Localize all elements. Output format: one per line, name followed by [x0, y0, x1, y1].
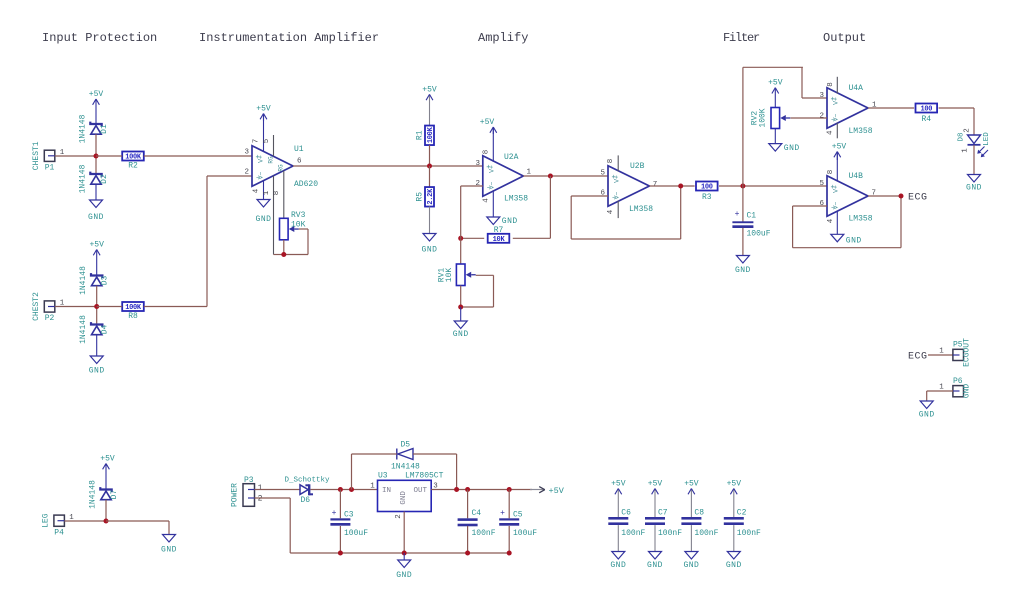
ground below D4: [96, 335, 98, 356]
wire D7 to node D: [105, 500, 107, 521]
wire P6 to ground: [927, 390, 953, 392]
svg-text:1: 1: [263, 190, 271, 195]
svg-text:C6: C6: [621, 509, 631, 518]
resistor R5 2.2K: [425, 187, 434, 207]
svg-text:8: 8: [827, 170, 835, 175]
pin 4 of U2A: [492, 190, 494, 217]
diode D7 1N4148: [100, 487, 111, 492]
svg-text:R2: R2: [128, 162, 138, 171]
regulator U3 LM7805CT: [378, 480, 432, 511]
wire R1 to node C: [429, 145, 431, 166]
resistor R2 100K: [122, 152, 144, 161]
svg-text:2: 2: [258, 494, 263, 503]
junction node B: [94, 304, 99, 309]
wire RV3 bottom to junction: [283, 240, 285, 255]
svg-text:C8: C8: [694, 509, 704, 518]
wire inverting node to U2A pin 2: [460, 186, 462, 238]
pin 4 stub of U2B: [617, 201, 619, 218]
wire P4 to node D: [64, 520, 106, 522]
junction rail C4: [465, 551, 470, 556]
svg-text:V−: V−: [488, 182, 495, 190]
op-amp U4B LM358: [827, 176, 868, 217]
potentiometer RV2 100K: [771, 108, 780, 129]
power +5V arrow right: [530, 489, 545, 491]
svg-text:GND: GND: [89, 367, 105, 376]
wire RV2 wiper to U4A pin 2: [791, 117, 828, 119]
svg-text:RV3: RV3: [291, 211, 306, 220]
capacitor C1 100uF: [742, 186, 744, 222]
svg-text:100nF: 100nF: [621, 529, 645, 538]
svg-text:4: 4: [482, 198, 490, 203]
wire inverting node to RV1: [460, 238, 462, 264]
svg-text:+5V: +5V: [100, 455, 115, 464]
connector P6 GND: [953, 386, 964, 397]
wire node B to D4: [96, 307, 98, 325]
svg-text:+5V: +5V: [89, 241, 104, 250]
junction rail C3: [338, 551, 343, 556]
svg-text:5: 5: [263, 138, 271, 143]
power +5V above C2: [733, 489, 735, 518]
svg-text:2.2K: 2.2K: [427, 188, 435, 205]
wire D5 left branch: [351, 454, 353, 490]
svg-text:4: 4: [827, 130, 835, 135]
svg-text:10K: 10K: [445, 268, 454, 283]
svg-text:3: 3: [244, 149, 249, 157]
wire U2B output: [649, 185, 694, 187]
svg-text:+5V: +5V: [89, 90, 104, 99]
wire P1 to node A: [55, 155, 96, 157]
svg-text:ECG: ECG: [908, 193, 928, 204]
svg-text:100K: 100K: [125, 304, 142, 312]
ground below U3: [403, 553, 405, 560]
connector P2 CHEST2: [44, 301, 55, 312]
svg-text:1N4148: 1N4148: [79, 164, 88, 193]
power +5V above U4B: [836, 152, 838, 161]
junction filter node: [740, 184, 745, 189]
wire R3 to filter node: [719, 185, 827, 187]
svg-text:GND: GND: [161, 546, 177, 555]
ground below C7: [654, 525, 656, 551]
svg-text:P4: P4: [54, 528, 64, 537]
svg-text:100uF: 100uF: [513, 529, 537, 538]
svg-text:1: 1: [939, 384, 944, 392]
svg-text:2: 2: [819, 113, 824, 121]
wire C3 to bottom rail: [339, 526, 341, 553]
svg-text:C1: C1: [747, 212, 757, 221]
svg-text:V+: V+: [833, 97, 840, 105]
svg-text:Input Protection: Input Protection: [42, 31, 157, 45]
power +5V above RV2: [774, 88, 776, 108]
wire R7 to inverting node: [461, 237, 485, 239]
wire node B to R8: [97, 306, 123, 308]
wire feedback down to R7: [549, 176, 551, 238]
ground below C1: [742, 228, 744, 256]
wire U2B feedback: [571, 195, 608, 197]
power +5V above D7: [105, 464, 107, 490]
svg-text:V+: V+: [614, 175, 621, 183]
wire ECG to P5: [928, 354, 953, 356]
svg-text:+5V: +5V: [611, 480, 626, 489]
svg-text:R7: R7: [494, 226, 504, 235]
svg-text:D7: D7: [110, 490, 119, 500]
junction OUT node: [454, 487, 459, 492]
pin 4 of U4B: [836, 211, 838, 235]
svg-text:7: 7: [653, 181, 658, 189]
capacitor C7 100nF: [645, 517, 665, 520]
svg-text:10K: 10K: [493, 236, 506, 244]
svg-text:D6: D6: [301, 496, 311, 505]
svg-text:GND: GND: [784, 144, 800, 153]
capacitor C2 100nF: [724, 517, 744, 520]
ground below U2A: [492, 216, 494, 218]
junction ECG node: [899, 194, 904, 199]
wire D6 to U3 IN: [310, 489, 377, 491]
svg-text:U4A: U4A: [849, 84, 864, 93]
power +5V above U2A: [492, 127, 494, 134]
pin 8 stub of U4A: [836, 77, 838, 94]
svg-text:V−: V−: [614, 192, 621, 200]
svg-text:GND: GND: [726, 561, 742, 570]
junction D5 left node: [349, 487, 354, 492]
svg-text:GND: GND: [735, 266, 751, 275]
svg-text:5: 5: [600, 170, 605, 178]
svg-text:100uF: 100uF: [747, 230, 771, 239]
svg-text:U3: U3: [378, 472, 388, 481]
ground right of LEG: [168, 534, 170, 536]
svg-text:LM358: LM358: [629, 205, 653, 214]
power +5V above C7: [654, 489, 656, 518]
power +5V above C6: [617, 489, 619, 518]
pin 8 of U2A: [492, 127, 494, 162]
ground below D8: [973, 145, 975, 175]
ground below C6: [617, 525, 619, 551]
wire RV1 wiper loop: [476, 274, 494, 276]
svg-text:Output: Output: [823, 31, 866, 45]
svg-text:1: 1: [370, 483, 375, 491]
svg-text:GND: GND: [610, 561, 626, 570]
ground below C2: [733, 525, 735, 551]
wire U3 OUT to +5V: [431, 489, 532, 491]
svg-text:100nF: 100nF: [694, 529, 718, 538]
wire RV1 bottom: [460, 286, 462, 308]
wire RV3 wiper loop: [299, 228, 308, 230]
svg-text:R5: R5: [416, 192, 425, 202]
potentiometer RV3 10K: [280, 218, 289, 240]
svg-text:+5V: +5V: [684, 480, 699, 489]
wire U1 output to U2A: [293, 165, 483, 167]
svg-text:P3: P3: [244, 476, 254, 485]
junction inverting node: [458, 236, 463, 241]
svg-text:+5V: +5V: [480, 118, 495, 127]
svg-text:100K: 100K: [125, 154, 142, 162]
resistor R1 100K: [425, 126, 434, 146]
svg-text:D3: D3: [101, 276, 110, 286]
ground below R5: [429, 207, 431, 234]
svg-text:ECG: ECG: [908, 352, 928, 363]
svg-text:C4: C4: [472, 509, 482, 518]
resistor R3 100: [696, 182, 718, 191]
svg-text:R8: R8: [128, 312, 138, 321]
wire R4 to LED: [939, 107, 974, 109]
svg-text:100: 100: [920, 106, 932, 114]
svg-text:GND: GND: [453, 330, 469, 339]
wire U4B output: [868, 195, 901, 197]
junction C3 node: [338, 487, 343, 492]
svg-text:6: 6: [297, 158, 302, 166]
svg-text:4: 4: [253, 188, 261, 193]
svg-text:1N4148: 1N4148: [79, 315, 88, 344]
svg-text:OUT: OUT: [413, 487, 427, 495]
svg-text:LED: LED: [983, 132, 991, 146]
svg-text:GND: GND: [256, 215, 272, 224]
svg-text:AD620: AD620: [294, 180, 318, 189]
svg-text:Amplify: Amplify: [478, 31, 528, 45]
pin 4 of U1: [263, 181, 265, 200]
svg-text:Instrumentation Amplifier: Instrumentation Amplifier: [199, 31, 379, 45]
svg-text:D1: D1: [100, 124, 109, 134]
svg-text:8: 8: [482, 150, 490, 155]
svg-text:LM358: LM358: [849, 215, 873, 224]
svg-text:RG: RG: [278, 164, 285, 172]
junction node D: [104, 519, 109, 524]
power +5V above D3: [96, 250, 98, 276]
op-amp U1 AD620: [252, 146, 293, 187]
pin 8 stub of U2B: [617, 155, 619, 171]
pin 4 stub of U4A: [836, 123, 838, 139]
junction C4 node: [465, 487, 470, 492]
wire node A to R2: [96, 155, 122, 157]
svg-text:IN: IN: [382, 487, 391, 495]
svg-text:1N4148: 1N4148: [89, 480, 98, 509]
resistor R4 100: [916, 104, 938, 113]
diode D6 D_Schottky: [300, 485, 308, 495]
junction rail U3: [402, 551, 407, 556]
svg-text:1N4148: 1N4148: [79, 114, 88, 143]
wire C5 to bottom rail: [508, 526, 510, 553]
ground below P6: [926, 400, 928, 402]
wire node C to R5: [429, 166, 431, 187]
svg-text:R4: R4: [921, 115, 931, 124]
svg-text:2: 2: [964, 128, 972, 133]
svg-text:6: 6: [819, 200, 824, 208]
svg-text:CHEST1: CHEST1: [32, 141, 41, 170]
svg-text:V−: V−: [833, 202, 840, 210]
junction RV3 node: [281, 252, 286, 257]
svg-text:ECGOUT: ECGOUT: [963, 338, 972, 367]
svg-text:GND: GND: [683, 561, 699, 570]
svg-text:C5: C5: [513, 511, 523, 520]
svg-text:P5: P5: [953, 341, 963, 350]
ground below D2: [95, 184, 97, 200]
junction U2B out node: [678, 184, 683, 189]
svg-text:LM7805CT: LM7805CT: [405, 472, 444, 481]
connector P3 POWER: [243, 484, 255, 507]
ground below RV1: [460, 307, 462, 321]
svg-text:D5: D5: [401, 441, 411, 450]
svg-text:U1: U1: [294, 145, 304, 154]
diode D3 1N4148: [91, 273, 102, 278]
svg-text:GND: GND: [919, 411, 935, 420]
svg-text:1: 1: [527, 169, 532, 177]
svg-text:1N4148: 1N4148: [391, 463, 420, 472]
svg-text:C7: C7: [658, 509, 668, 518]
junction U2A out node: [548, 174, 553, 179]
svg-text:LM358: LM358: [849, 127, 873, 136]
svg-text:GND: GND: [400, 491, 408, 505]
wire U4A output to R4: [868, 107, 914, 109]
pin 7 of U1: [263, 114, 265, 152]
svg-text:U2B: U2B: [630, 162, 645, 171]
wire R2 to U1 pin 3: [144, 155, 252, 157]
diode D4 1N4148: [91, 322, 102, 327]
svg-text:3: 3: [819, 92, 824, 100]
capacitor C4 100nF: [467, 490, 469, 519]
svg-text:8: 8: [273, 191, 281, 196]
wire node A to D2: [95, 156, 97, 174]
svg-text:C2: C2: [737, 509, 747, 518]
svg-text:8: 8: [827, 82, 835, 87]
diode D2 1N4148: [90, 172, 101, 177]
svg-text:V−: V−: [258, 172, 265, 180]
pin 1 of U1: [273, 176, 275, 255]
svg-text:100K: 100K: [427, 126, 435, 143]
svg-text:4: 4: [827, 218, 835, 223]
svg-text:2: 2: [244, 169, 249, 177]
svg-text:100nF: 100nF: [658, 529, 682, 538]
potentiometer RV1 10K: [456, 264, 465, 286]
power +5V above U1: [263, 114, 265, 122]
svg-text:V−: V−: [833, 114, 840, 122]
diode D1 1N4148: [90, 122, 101, 127]
connector P1 CHEST1: [44, 150, 55, 161]
wire D3 anode to node B: [96, 286, 98, 307]
svg-text:100: 100: [701, 184, 713, 192]
power +5V above R1: [429, 94, 431, 125]
junction RV1 gnd node: [458, 305, 463, 310]
svg-text:2: 2: [395, 514, 403, 519]
pin 8 of U1: [283, 171, 285, 219]
ground below U4B: [836, 233, 838, 235]
wire D5 right branch: [413, 453, 457, 455]
connector P4 LEG: [54, 515, 65, 526]
svg-text:P1: P1: [45, 164, 55, 173]
power +5V above D1: [95, 99, 97, 124]
wire C4 to bottom rail: [467, 526, 469, 553]
connector P5 ECGOUT: [953, 349, 964, 360]
svg-text:GND: GND: [422, 246, 438, 255]
junction rail C5: [507, 551, 512, 556]
pin 2 of U3: [403, 512, 405, 554]
svg-text:P6: P6: [953, 377, 963, 386]
svg-text:2: 2: [475, 180, 480, 188]
LED D8: [968, 135, 981, 144]
svg-text:5: 5: [819, 180, 824, 188]
svg-text:GND: GND: [502, 217, 518, 226]
op-amp U4A LM358: [827, 88, 868, 129]
svg-text:D4: D4: [101, 325, 110, 335]
svg-text:8: 8: [607, 159, 615, 164]
pin 5 of U1 REF stub: [273, 135, 275, 156]
diode D5 1N4148 over regulator: [398, 449, 413, 460]
svg-text:CHEST2: CHEST2: [32, 292, 41, 321]
svg-text:+5V: +5V: [422, 85, 437, 94]
svg-text:4: 4: [607, 209, 615, 214]
wire P3 pin1 to D6: [255, 489, 301, 491]
wire U2A output: [523, 175, 608, 177]
svg-text:LEG: LEG: [41, 513, 50, 528]
svg-text:GND: GND: [396, 571, 412, 580]
wire U1 pin1 to junction: [274, 254, 284, 256]
junction node A: [94, 154, 99, 159]
wire filter node up to U4A: [742, 67, 744, 186]
svg-text:+: +: [500, 509, 505, 518]
ground below U1: [263, 199, 265, 201]
capacitor C3 100uF: [339, 490, 341, 519]
svg-text:R3: R3: [702, 193, 712, 202]
svg-text:U4B: U4B: [849, 172, 864, 181]
svg-text:+5V: +5V: [768, 79, 783, 88]
svg-text:LM358: LM358: [504, 195, 528, 204]
svg-text:GND: GND: [963, 384, 972, 399]
wire node D to ground: [106, 520, 169, 522]
wire D1 anode to node A: [95, 134, 97, 156]
svg-text:V+: V+: [833, 185, 840, 193]
svg-text:C3: C3: [344, 511, 354, 520]
svg-text:RG: RG: [268, 156, 275, 164]
svg-text:GND: GND: [647, 561, 663, 570]
resistor R7 10K: [488, 234, 510, 243]
capacitor C5 100uF: [508, 490, 510, 519]
svg-text:V+: V+: [488, 165, 495, 173]
svg-text:+: +: [332, 509, 337, 518]
junction C5 node: [507, 487, 512, 492]
svg-text:1: 1: [939, 348, 944, 356]
svg-text:+5V: +5V: [727, 480, 742, 489]
svg-text:Filter: Filter: [723, 31, 760, 45]
junction node C divider: [427, 164, 432, 169]
power +5V above C8: [690, 489, 692, 518]
svg-text:10K: 10K: [291, 221, 306, 230]
svg-text:R1: R1: [416, 130, 425, 140]
svg-text:+5V: +5V: [549, 486, 565, 496]
svg-text:+5V: +5V: [648, 480, 663, 489]
wire U4B feedback: [793, 205, 827, 207]
svg-text:U2A: U2A: [504, 153, 519, 162]
svg-text:D_Schottky: D_Schottky: [285, 477, 331, 485]
svg-text:100K: 100K: [759, 108, 768, 127]
svg-text:1N4148: 1N4148: [79, 266, 88, 295]
capacitor C8 100nF: [681, 517, 701, 520]
resistor R8 100K: [122, 302, 144, 311]
svg-text:100nF: 100nF: [737, 529, 761, 538]
svg-text:3: 3: [475, 160, 480, 168]
ground below C8: [690, 525, 692, 551]
svg-text:POWER: POWER: [230, 483, 239, 507]
svg-text:100uF: 100uF: [344, 529, 368, 538]
pin 8 of U4B: [836, 152, 838, 182]
svg-text:V+: V+: [258, 155, 265, 163]
svg-text:7: 7: [253, 139, 261, 144]
wire P3 pin2 to bottom rail: [255, 497, 291, 499]
svg-text:P2: P2: [45, 314, 55, 323]
svg-text:100nF: 100nF: [472, 529, 496, 538]
svg-text:GND: GND: [846, 237, 862, 246]
wire P2 to node B: [55, 306, 97, 308]
ground below RV2: [774, 129, 776, 144]
svg-text:+: +: [735, 210, 740, 219]
svg-text:GND: GND: [966, 184, 982, 193]
capacitor C6 100nF: [608, 517, 628, 520]
